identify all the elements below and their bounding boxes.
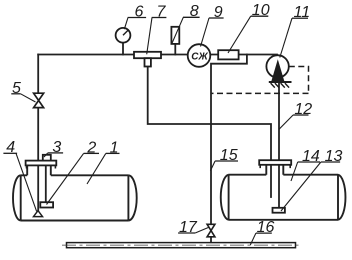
svg-text:9: 9 [214, 4, 223, 21]
svg-text:3: 3 [52, 139, 61, 156]
svg-text:4: 4 [6, 139, 15, 156]
svg-text:7: 7 [157, 3, 167, 20]
svg-text:17: 17 [179, 219, 198, 236]
svg-text:14: 14 [302, 148, 320, 165]
svg-text:11: 11 [294, 4, 311, 21]
svg-text:СЖ: СЖ [191, 51, 208, 62]
svg-text:1: 1 [110, 139, 119, 156]
svg-text:6: 6 [135, 3, 144, 20]
svg-text:8: 8 [190, 3, 199, 20]
svg-text:15: 15 [220, 147, 238, 164]
svg-text:16: 16 [257, 219, 275, 236]
svg-text:5: 5 [12, 80, 21, 97]
svg-text:12: 12 [294, 101, 312, 118]
svg-text:2: 2 [86, 139, 96, 156]
svg-text:13: 13 [325, 148, 343, 165]
svg-text:10: 10 [252, 2, 270, 19]
